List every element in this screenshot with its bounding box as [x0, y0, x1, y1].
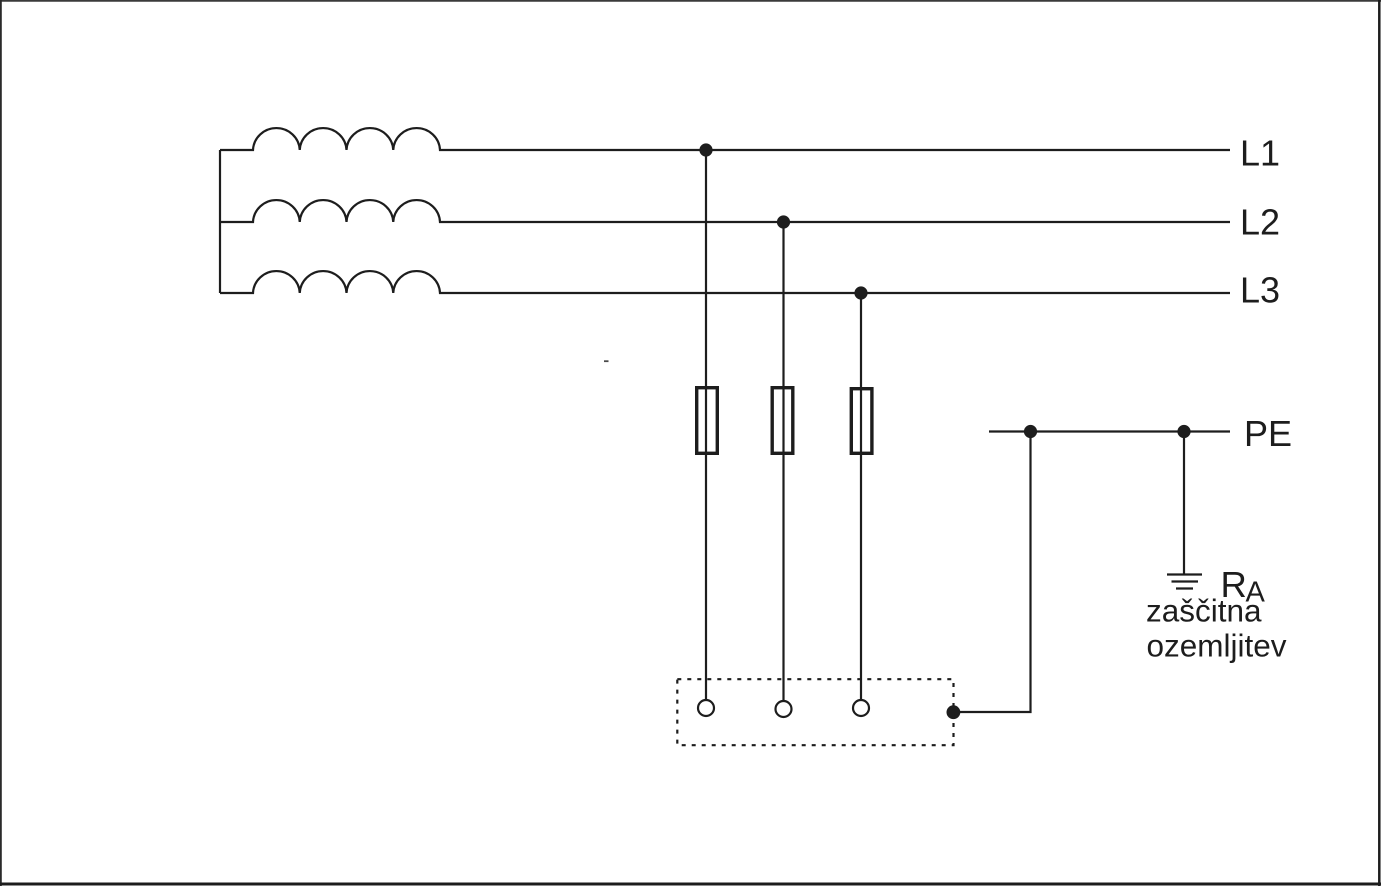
- svg-text:L1: L1: [1240, 133, 1280, 174]
- svg-text:L3: L3: [1240, 270, 1280, 311]
- svg-text:zaščitna: zaščitna: [1146, 593, 1262, 629]
- svg-text:PE: PE: [1244, 413, 1292, 454]
- svg-text:ozemljitev: ozemljitev: [1147, 628, 1287, 664]
- svg-text:L2: L2: [1240, 201, 1280, 242]
